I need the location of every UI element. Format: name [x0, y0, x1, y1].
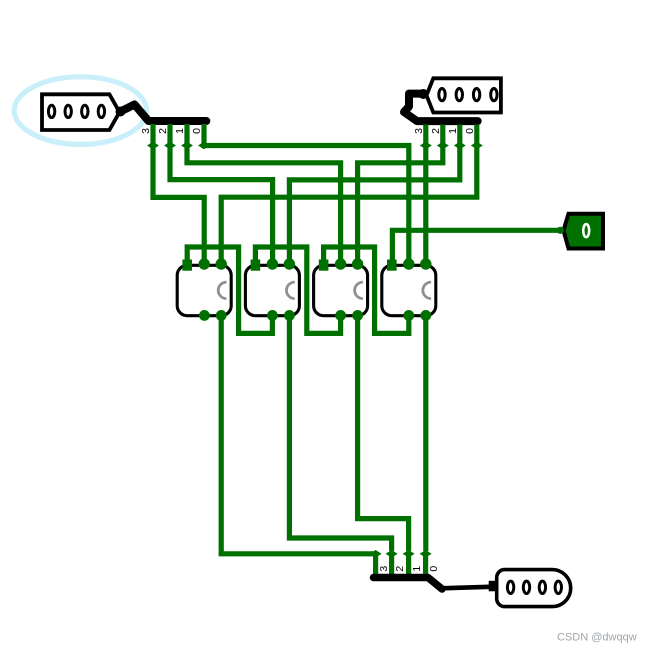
junction diamond SA leg2 — [164, 142, 176, 150]
bus wire + splitter SB (input B) — [404, 94, 478, 122]
constant 0 pin (carry-in, right) — [564, 214, 604, 249]
input pin A (4-bit, top-left) — [42, 94, 120, 130]
wire carry U4->U3: Cout down, left, up, left, into U3 Cin — [324, 247, 409, 333]
svg-text:3: 3 — [140, 128, 152, 134]
splitter SB leg 0 — [474, 125, 479, 147]
splitter SA leg 2 — [167, 124, 172, 146]
U1 pin Cin — [182, 260, 192, 271]
U3 pin S — [352, 310, 363, 321]
wire carry U3->U2 — [255, 247, 340, 333]
U4 facing notch — [423, 282, 431, 299]
U4 pin S — [420, 310, 431, 321]
junction diamond SB leg1 — [454, 142, 466, 150]
wire B2: down, left, into U3 pin B — [358, 143, 443, 263]
U3 pin A — [335, 258, 346, 269]
bus wire + splitter SA (input A) — [121, 105, 207, 122]
U3 pin B — [352, 258, 363, 269]
svg-text:1: 1 — [447, 128, 459, 134]
splitter SB labels — [413, 128, 476, 134]
output pin (4-bit, bottom-right) — [497, 570, 571, 607]
U3 body — [314, 265, 368, 315]
junction diamond SOut leg3 — [370, 550, 382, 558]
svg-text:0: 0 — [191, 128, 203, 134]
svg-text:3: 3 — [378, 566, 390, 572]
U3 pin Cin — [319, 260, 329, 271]
junction diamond SA leg1 — [181, 142, 193, 150]
svg-text:0: 0 — [464, 128, 476, 134]
svg-text:CSDN @dwqqw: CSDN @dwqqw — [557, 632, 637, 644]
input pin B (4-bit, top-right) — [427, 78, 501, 112]
splitter SA leg 0 — [201, 124, 206, 146]
svg-text:0: 0 — [428, 566, 440, 572]
splitter SA leg 3 — [150, 124, 155, 146]
splitter SB leg 1 — [457, 125, 462, 147]
full adder U3 — [314, 258, 368, 321]
svg-text:3: 3 — [413, 128, 425, 134]
U2 pin B — [284, 258, 295, 269]
U2 pin A — [267, 258, 278, 269]
junction diamond SB leg0 — [471, 142, 483, 150]
wire Cin: const pin to U4 pin Cin — [392, 230, 560, 263]
wire A2: leg2 down, right, into U2 pin A — [170, 143, 273, 263]
U4 pin A — [403, 258, 414, 269]
junction diamond SB leg2 — [437, 142, 449, 150]
U2 body — [245, 265, 299, 315]
U4 pin Cin — [387, 260, 397, 271]
wire B3: straight down into U4 pin B — [423, 143, 428, 263]
splitter SA leg 1 — [184, 124, 189, 146]
junction diamond SOut leg0 — [420, 550, 432, 558]
U4 pin Cout — [403, 310, 414, 321]
wire sum S1: U3 S down, right, down to leg 1 — [358, 317, 409, 551]
const pin value digit "0" — [583, 224, 589, 237]
junction diamond SB leg3 — [420, 142, 432, 150]
splitter SA labels — [140, 128, 203, 134]
U2 facing notch — [286, 282, 294, 299]
svg-text:1: 1 — [411, 566, 423, 572]
U4 pin B — [420, 258, 431, 269]
U1 pin S — [216, 310, 227, 321]
svg-text:2: 2 — [394, 566, 406, 572]
output splitter bar + bus wire to output pin — [374, 578, 443, 590]
const pin port dot — [557, 227, 564, 234]
pin A port dot — [116, 107, 126, 117]
wire A0: leg0 right, down into U4 pin A — [204, 143, 409, 263]
U2 pin Cout — [267, 310, 278, 321]
wire B1: down, left, into U2 pin B — [289, 143, 459, 263]
U2 pin Cin — [251, 260, 261, 271]
U3 pin Cout — [335, 310, 346, 321]
full adder U2 — [245, 258, 299, 321]
wire sum S0: U4 S straight down to leg 0 — [423, 317, 428, 551]
wire A1: leg1 down, right, into U3 pin A — [187, 143, 341, 263]
wire B0: down, left, into U1 pin B — [221, 143, 477, 263]
pin B value digits "0 0 0 0" — [439, 88, 445, 100]
svg-text:2: 2 — [157, 128, 169, 134]
svg-text:1: 1 — [174, 128, 186, 134]
junction diamond SOut leg2 — [386, 550, 398, 558]
junction diamond SA leg0 — [198, 142, 210, 150]
U4 body — [382, 265, 436, 315]
splitter SB leg 3 — [423, 125, 428, 147]
full adder U1 — [177, 258, 231, 321]
U1 pin Cout — [199, 310, 210, 321]
pin A value digits "0 0 0 0" — [48, 105, 54, 117]
wire sum S3: U1 S down, right to output splitter leg 3 — [221, 317, 375, 554]
output pin nub — [489, 581, 498, 592]
U1 body — [177, 265, 231, 315]
svg-text:2: 2 — [430, 128, 442, 134]
U1 facing notch — [218, 282, 226, 299]
wire carry U2->U1 — [187, 247, 272, 333]
pin B port dot — [418, 89, 428, 99]
output splitter SOut legs — [373, 554, 378, 576]
junction diamond SOut leg1 — [403, 550, 415, 558]
bus wire splitter SOut to output pin — [441, 587, 491, 589]
highlight ellipse around input A — [14, 77, 146, 145]
junction diamond SA leg3 — [147, 142, 159, 150]
U2 pin S — [284, 310, 295, 321]
output splitter SOut labels — [378, 566, 440, 572]
U1 pin B — [216, 258, 227, 269]
full adder U4 — [382, 258, 436, 321]
U3 facing notch — [355, 282, 363, 299]
U1 pin A — [199, 258, 210, 269]
wire sum S2: U2 S down, right, down to leg 2 — [289, 317, 391, 551]
output pin value digits "0 0 0 0" — [507, 581, 513, 593]
splitter SB leg 2 — [440, 125, 445, 147]
wire A3: leg3 down, right, into U1 pin A — [153, 143, 204, 263]
